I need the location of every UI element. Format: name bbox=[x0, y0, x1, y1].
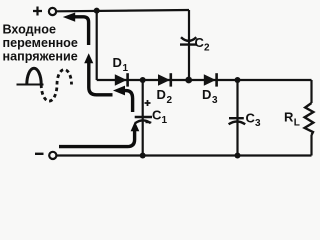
current arrow: upward mid-left (head up) bbox=[84, 53, 112, 95]
AC source waveform: solid axis bbox=[17, 84, 44, 86]
node: top junction dot bbox=[94, 8, 100, 14]
resistor RL zigzag bbox=[305, 103, 314, 135]
svg-text:C: C bbox=[152, 108, 162, 123]
label D2 bbox=[157, 87, 173, 106]
AC source waveform: dashed negative half-cycle bbox=[41, 85, 57, 102]
diode D3 bbox=[204, 73, 218, 86]
svg-text:Входное: Входное bbox=[3, 22, 56, 36]
svg-text:D: D bbox=[113, 55, 122, 70]
diode D1 bbox=[115, 73, 129, 86]
svg-text:напряжение: напряжение bbox=[3, 49, 78, 63]
node dot C3 bottom bbox=[235, 153, 241, 159]
wire: RL branch vertical (bottom part) bbox=[310, 135, 312, 156]
wire: mid rail with diodes bbox=[97, 79, 312, 81]
svg-text:переменное: переменное bbox=[3, 36, 78, 50]
svg-text:1: 1 bbox=[123, 63, 129, 74]
AC source waveform: dashed second positive half-cycle bbox=[57, 70, 72, 85]
svg-text:1: 1 bbox=[162, 115, 168, 126]
svg-text:3: 3 bbox=[255, 118, 261, 129]
current arrow: along bottom into C1 (head up) bbox=[59, 122, 139, 147]
label C2 bbox=[195, 35, 211, 54]
input terminal + (open circle) bbox=[49, 8, 56, 15]
svg-text:D: D bbox=[202, 87, 211, 102]
node dot at D3 output (C3 tap) bbox=[235, 77, 241, 83]
node dot between D1 and D2 bbox=[140, 77, 146, 83]
svg-text:C: C bbox=[246, 111, 256, 126]
svg-text:2: 2 bbox=[204, 43, 210, 54]
wire: top rail from + terminal to C2 branch corner bbox=[57, 10, 190, 11]
minus polarity sign bbox=[35, 153, 44, 155]
wire: C1 branch vertical bbox=[142, 80, 144, 156]
node dot C1 bottom bbox=[140, 153, 146, 159]
capacitor C1 (flat plate + curved plate below) bbox=[135, 117, 152, 123]
capacitor C3 (flat plate + curved plate below) bbox=[229, 118, 246, 124]
capacitor C2 (flat plate + curved plate above) bbox=[180, 37, 197, 44]
plus polarity sign bbox=[33, 7, 42, 16]
wire: bottom rail from - terminal to RL bbox=[57, 154, 312, 156]
label D3 bbox=[202, 87, 218, 106]
svg-text:L: L bbox=[294, 118, 300, 129]
node dot at D2/D3 junction (C2 tap) bbox=[185, 77, 192, 84]
wire: C2 branch vertical (corner at top right of rail down through C2 to mid rail) bbox=[188, 10, 190, 80]
label C3 bbox=[246, 111, 262, 130]
svg-text:3: 3 bbox=[212, 95, 218, 106]
label RL bbox=[284, 110, 300, 129]
svg-text:2: 2 bbox=[167, 95, 173, 106]
plus mark at C1 top bbox=[145, 100, 151, 106]
wire: C3 branch vertical bbox=[236, 80, 238, 156]
minus mark at C1 bottom bbox=[146, 121, 152, 123]
label: Входное переменное напряжение bbox=[3, 22, 78, 63]
current arrow: from C1 top toward left (head left) bbox=[113, 86, 133, 112]
svg-text:R: R bbox=[284, 110, 294, 125]
AC source waveform: solid positive half-cycle bbox=[27, 68, 41, 84]
wire: RL branch vertical (top part) bbox=[310, 80, 312, 103]
wire: vertical from top junction down to D1 anode bbox=[96, 11, 98, 80]
diode D2 bbox=[158, 73, 172, 86]
svg-text:D: D bbox=[157, 87, 166, 102]
label C1 bbox=[152, 108, 168, 127]
svg-text:C: C bbox=[195, 35, 205, 50]
current arrow: out to + terminal (head left) bbox=[63, 13, 89, 46]
label D1 bbox=[113, 55, 129, 74]
input terminal - (open circle) bbox=[49, 152, 56, 159]
